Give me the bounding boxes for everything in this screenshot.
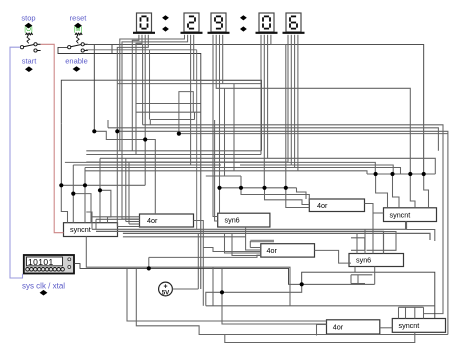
- svg-text:reset: reset: [70, 14, 88, 23]
- wire y170 row right end: [298, 171, 367, 174]
- button reset: [70, 14, 88, 44]
- wire U5 output loop: [86, 237, 290, 306]
- stub: [149, 120, 151, 125]
- wire to U7 top1: [356, 233, 358, 253]
- wire node B cont down: [116, 131, 118, 151]
- wire bus y231 to U7: [96, 231, 384, 253]
- wire U1 in3b: [129, 223, 140, 225]
- junction node J: [390, 172, 394, 176]
- wire U2 in2: [215, 120, 218, 221]
- wire x222 down to U8 in2: [222, 268, 327, 324]
- wire x122 to U1: [122, 218, 140, 220]
- wire J to U4: [393, 174, 400, 208]
- button enable diamond: [73, 66, 81, 72]
- wire y158 row to right corner: [100, 158, 435, 174]
- wire blue from stop switch to clock: [10, 47, 23, 278]
- block 4or U6: [261, 244, 315, 257]
- wire y167 row: [85, 167, 234, 169]
- svg-text:4or: 4or: [147, 216, 158, 225]
- wire reset left loop long vertical: [58, 47, 201, 289]
- wire node B long bus east: [117, 131, 448, 334]
- colon 1: [162, 15, 169, 31]
- wire P to syncnt U5 top: [99, 191, 101, 223]
- junction node K: [408, 172, 412, 176]
- wire rect a: [351, 238, 365, 251]
- wire rect c: [407, 230, 435, 242]
- button start diamond: [25, 66, 33, 72]
- wire bus y124 to right: [143, 125, 443, 314]
- wire vertical x142 up: [142, 44, 144, 125]
- wire y176 stub: [206, 175, 241, 177]
- wire 5V out: [172, 288, 198, 290]
- wire y165b row: [240, 164, 291, 166]
- wire y165 row: [73, 164, 221, 166]
- junction node S: [177, 132, 181, 136]
- power supply 5V: [159, 282, 173, 297]
- wire rect above U9 top: [399, 306, 424, 308]
- wire x129 down: [128, 162, 130, 224]
- stub thick to U6: [249, 241, 251, 248]
- wire D3 pin4: [222, 35, 224, 84]
- wire M down to syncnt U5: [61, 185, 67, 222]
- block 4or U3: [309, 199, 364, 212]
- diamond below sys clk label: [40, 290, 48, 296]
- wire y170 row: [85, 170, 234, 172]
- switch SW1 stop: [20, 43, 40, 52]
- wire U4 bottom: [405, 222, 407, 230]
- wire D5 pin3: [294, 35, 296, 168]
- wire bus y127 to right: [108, 128, 438, 151]
- wire bus y305: [206, 305, 435, 307]
- wire row F-H: [220, 187, 297, 189]
- wire branch to U6 input: [203, 248, 260, 252]
- junction node Q: [217, 186, 221, 190]
- wire x85 to node N: [84, 168, 86, 186]
- wire x224 vertical: [224, 88, 226, 176]
- wire x117 down to 4or input: [116, 151, 118, 227]
- wire x203 down to bottom bus: [202, 248, 204, 306]
- wire D1 pin2: [136, 35, 142, 155]
- wire D2 pin4: [194, 35, 262, 81]
- wire U1 in2 src: [95, 219, 97, 229]
- wire D1 pin1: [132, 35, 139, 151]
- button stop: [21, 14, 35, 44]
- wire y154 row: [86, 154, 261, 156]
- junction node B: [115, 129, 119, 133]
- stub x108: [107, 120, 109, 128]
- wire U6 out to U7 left: [315, 250, 352, 263]
- wire into U8 in1: [127, 268, 327, 321]
- wire x73 to node O: [72, 165, 74, 194]
- wire into U9 a: [405, 307, 407, 318]
- block syn6 U7: [349, 254, 404, 267]
- svg-text:10101: 10101: [28, 257, 54, 267]
- wire y162 row to node I: [288, 162, 375, 174]
- wire D4 pin2 to node G: [263, 35, 265, 188]
- junction node M: [59, 183, 63, 187]
- wire x234 vertical: [233, 84, 235, 171]
- junction node C: [147, 266, 151, 270]
- wire y170b row: [234, 170, 298, 172]
- stub: [194, 112, 196, 119]
- wire clock output long: [74, 264, 375, 285]
- svg-text:syncnt: syncnt: [390, 210, 411, 219]
- wire jog at x112: [111, 45, 113, 54]
- wire node C riser: [148, 257, 150, 268]
- wire node A to 4or U1 top: [94, 131, 155, 214]
- wire D2 pin3: [190, 35, 192, 165]
- wire x122 down: [121, 155, 123, 220]
- wire U3 out to syn6 U7: [365, 204, 374, 254]
- block syncnt U4: [384, 208, 437, 222]
- wire D4 pin3: [267, 35, 269, 159]
- svg-text:syncnt: syncnt: [399, 321, 420, 330]
- svg-text:4or: 4or: [333, 323, 344, 332]
- wire rect above U9 left: [398, 307, 400, 318]
- wire inner step to node S: [179, 92, 193, 134]
- wire node Q to U2 top: [219, 188, 221, 213]
- wire L to U4: [424, 174, 429, 208]
- junction node A: [92, 129, 96, 133]
- wire U1 in3: [126, 221, 140, 223]
- wire reset to node L long top: [88, 45, 424, 174]
- svg-text:syn6: syn6: [356, 256, 371, 265]
- block 4or U1: [140, 214, 194, 227]
- junction node O: [71, 192, 75, 196]
- block 4or U8: [327, 320, 380, 334]
- wire H to U3 in: [286, 188, 310, 208]
- wire D5 pin2: [290, 35, 292, 165]
- wire D3 pin1 into syn6 U2: [213, 35, 218, 217]
- stub: [350, 275, 352, 284]
- wire D2 pin2: [122, 35, 188, 155]
- wire y150 row: [86, 150, 261, 152]
- 7-segment display minutes units: [208, 13, 230, 33]
- wire y83 long: [117, 83, 261, 85]
- junction node E: [300, 282, 304, 286]
- junction node N: [83, 183, 87, 187]
- wire enable down to node M: [60, 124, 62, 186]
- wire P right loop: [100, 190, 111, 222]
- wire row I-L: [367, 173, 435, 175]
- wire 5V riser: [197, 233, 199, 289]
- wire to U6 in4: [232, 233, 261, 255]
- wire O to syncnt U5 top: [72, 194, 74, 223]
- 7-segment display hours: [133, 13, 155, 33]
- wire y257 row into U6: [149, 255, 261, 257]
- svg-text:start: start: [22, 57, 38, 66]
- svg-text:syncnt: syncnt: [70, 225, 91, 234]
- wire U7 bottom bar: [351, 274, 372, 276]
- wire D4 pin4 to node H: [271, 35, 286, 188]
- wire y162 row: [86, 161, 288, 163]
- wire x213 down: [212, 267, 214, 306]
- wire bottom-most to U9: [225, 332, 415, 342]
- wire G to U3 in: [265, 188, 310, 205]
- wire U1 in4: [117, 226, 139, 228]
- wire thick segment above U6: [250, 240, 274, 242]
- wire to U6 in3: [225, 233, 261, 253]
- wire to U7 top2: [364, 229, 366, 253]
- wire row end to U3 top: [297, 188, 307, 199]
- wire F to U3 in: [241, 188, 309, 202]
- wire x149 vertical: [149, 50, 151, 120]
- wire x316 stub: [316, 325, 318, 336]
- wire red from stop switch to syncnt U5: [41, 44, 64, 232]
- wire bus y236: [123, 236, 246, 238]
- wire node A riser: [93, 45, 95, 132]
- wire U1 in2: [96, 218, 140, 220]
- wire y167 row right end: [295, 168, 401, 175]
- clock generator sys clk / xtal: [24, 255, 74, 274]
- wire y103 inner bar: [136, 103, 201, 105]
- wire bus y229: [92, 222, 407, 230]
- wire I to U4: [376, 174, 388, 208]
- wire bus y233: [123, 233, 430, 240]
- colon 2: [240, 15, 247, 31]
- wire x125 down: [125, 158, 127, 221]
- wire D5 pin4: [297, 35, 299, 171]
- svg-text:4or: 4or: [267, 246, 278, 255]
- bus y229 left end up: [91, 212, 93, 229]
- block syncnt U5: [64, 223, 118, 237]
- block syn6 U2: [218, 213, 270, 227]
- wire D1 pin4 to node B: [117, 35, 148, 132]
- wire D3 pin2 to node K: [216, 35, 410, 174]
- wire enable loop top: [61, 80, 261, 151]
- junction node D: [220, 290, 224, 294]
- wire branch into U4 left: [373, 212, 384, 214]
- wire U1 in1 src: [86, 212, 92, 217]
- wire node S bus y133: [179, 133, 448, 135]
- wire K to U4: [410, 174, 415, 208]
- wire y167b row: [234, 167, 295, 169]
- wire y119 bar: [150, 119, 194, 121]
- wire O right branch to U5: [73, 194, 91, 223]
- wire N down to U5 top: [84, 185, 86, 222]
- 7-segment display seconds units: [283, 13, 305, 33]
- wire D5 pin1: [287, 35, 289, 163]
- wire into U9 c: [423, 307, 425, 318]
- svg-text:4or: 4or: [317, 201, 328, 210]
- wire U1 in1: [92, 216, 140, 218]
- wire row M-N to pin3 column: [61, 184, 145, 186]
- svg-text:5V: 5V: [162, 290, 170, 297]
- wire U8 in3: [317, 324, 327, 326]
- wire node E to y292: [206, 284, 302, 306]
- wire D3 pin3 to node Q: [219, 35, 221, 188]
- wire vertical x196 to bus: [196, 50, 198, 230]
- wire into U9 b: [414, 307, 416, 318]
- junction node F: [239, 186, 243, 190]
- 7-segment display seconds tens: [256, 13, 278, 33]
- wire rect b: [367, 232, 397, 251]
- switch SW2 reset: [68, 43, 88, 52]
- wire big loop bottom: [136, 111, 201, 113]
- wire x241 to node F: [240, 176, 242, 188]
- junction node G: [262, 186, 266, 190]
- wire syn6 U7 bottom pin: [374, 267, 376, 285]
- junction node H: [284, 186, 288, 190]
- wire D1 pin3: [144, 35, 146, 186]
- wire bottom staircase long: [136, 268, 448, 334]
- wire y162 row: [65, 161, 191, 163]
- wire U6 in: [250, 247, 260, 249]
- wire U8 out to U9: [380, 327, 393, 329]
- wire x100 to node P: [99, 158, 101, 190]
- wire U2 bottom to U6: [246, 227, 261, 250]
- wire y165 row to node J: [291, 165, 393, 174]
- wire D4 pin1: [260, 35, 262, 155]
- svg-text:stop: stop: [21, 14, 35, 23]
- svg-text:sys clk / xtal: sys clk / xtal: [22, 282, 65, 291]
- svg-text:enable: enable: [65, 57, 88, 66]
- wire D2 pin1: [120, 35, 185, 151]
- wire U1 output down: [194, 221, 204, 248]
- svg-text:syn6: syn6: [225, 216, 240, 225]
- junction node I: [374, 172, 378, 176]
- wire small bar: [351, 283, 365, 285]
- block syncnt U9: [392, 319, 445, 333]
- wire node E riser and east run: [302, 272, 435, 318]
- junction node R: [143, 137, 147, 141]
- wire reset lower branch right: [86, 49, 197, 51]
- junction node L: [422, 172, 426, 176]
- junction node P: [98, 188, 102, 192]
- stub b: [357, 275, 359, 284]
- 7-segment display minutes tens: [181, 13, 203, 33]
- wire y162b row: [191, 161, 288, 163]
- wire U7 bottom pin2: [354, 267, 356, 273]
